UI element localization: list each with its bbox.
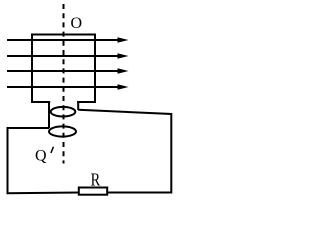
svg-text:R: R <box>91 169 101 190</box>
svg-text:O: O <box>71 15 83 32</box>
svg-text:Q: Q <box>35 148 47 165</box>
